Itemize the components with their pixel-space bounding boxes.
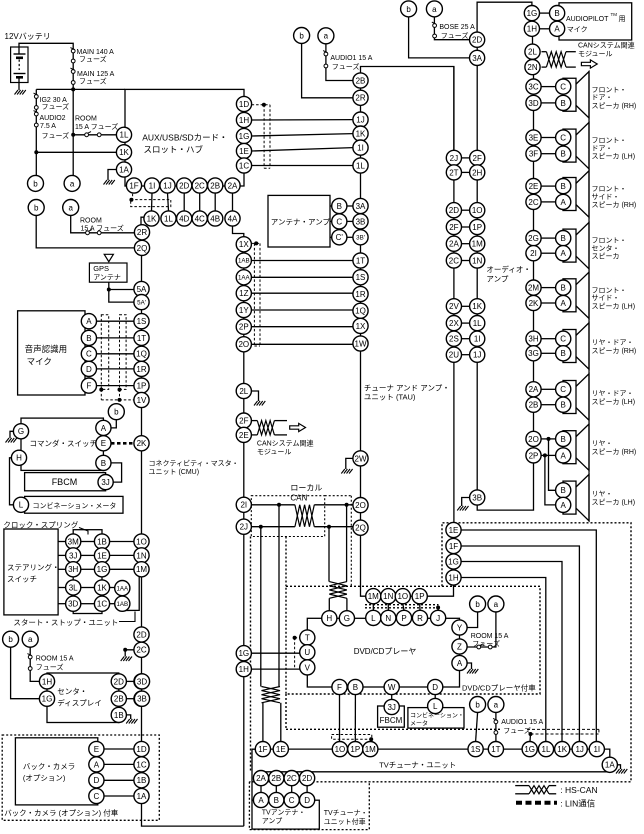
svg-text:センタ・: センタ・ xyxy=(57,687,87,696)
svg-text:C': C' xyxy=(336,233,344,242)
svg-text:1L: 1L xyxy=(120,131,129,140)
svg-text:ユニット (TAU): ユニット (TAU) xyxy=(364,393,416,402)
svg-text:a: a xyxy=(28,635,33,644)
svg-text:B: B xyxy=(86,334,91,343)
svg-text:3L: 3L xyxy=(69,583,78,592)
svg-text:1M: 1M xyxy=(136,565,147,574)
svg-text:1L: 1L xyxy=(164,214,173,223)
svg-text:コネクティビティ・マスタ・: コネクティビティ・マスタ・ xyxy=(149,459,239,468)
svg-text:アンテナ: アンテナ xyxy=(93,274,121,282)
svg-text:サイド・: サイド・ xyxy=(592,193,620,201)
svg-text:4C: 4C xyxy=(195,214,205,223)
svg-text:1T: 1T xyxy=(356,256,365,265)
svg-text:2R: 2R xyxy=(355,94,365,103)
svg-text:1R: 1R xyxy=(136,365,146,374)
svg-text:1Z: 1Z xyxy=(239,289,248,298)
svg-text:C: C xyxy=(560,335,566,344)
svg-text:1V: 1V xyxy=(137,396,147,405)
svg-text:b: b xyxy=(299,31,304,40)
svg-text:1H: 1H xyxy=(527,25,537,34)
svg-text:1M: 1M xyxy=(365,745,376,754)
svg-text:マイク: マイク xyxy=(567,26,588,34)
svg-text:2C: 2C xyxy=(136,646,146,655)
svg-text:MAIN 125 A: MAIN 125 A xyxy=(77,71,115,78)
svg-text:3B: 3B xyxy=(356,217,366,226)
svg-text:1O: 1O xyxy=(472,206,483,215)
svg-text:1M: 1M xyxy=(368,592,379,601)
svg-text:B: B xyxy=(561,349,566,358)
svg-text:1E: 1E xyxy=(97,551,107,560)
svg-text:2X: 2X xyxy=(449,319,459,328)
svg-text:マイク: マイク xyxy=(27,357,52,367)
svg-text:D: D xyxy=(86,365,92,374)
svg-text:2B: 2B xyxy=(356,76,366,85)
svg-text:1K: 1K xyxy=(356,129,366,138)
svg-text:スピーカ (RH): スピーカ (RH) xyxy=(592,201,637,209)
svg-text:G: G xyxy=(344,614,350,623)
svg-text:C: C xyxy=(560,133,566,142)
svg-text:B: B xyxy=(561,435,566,444)
svg-text:C: C xyxy=(94,792,100,801)
svg-text:1D: 1D xyxy=(239,100,249,109)
svg-text:2Q: 2Q xyxy=(137,244,148,253)
svg-text:チューナ アンド アンプ・: チューナ アンド アンプ・ xyxy=(364,384,450,393)
svg-text:1B: 1B xyxy=(97,537,107,546)
svg-text:L: L xyxy=(371,614,376,623)
svg-text:H: H xyxy=(326,614,332,623)
svg-text:4A: 4A xyxy=(228,214,238,223)
svg-text:5A: 5A xyxy=(137,285,147,294)
svg-text:2H: 2H xyxy=(472,168,482,177)
svg-text:1G: 1G xyxy=(524,745,535,754)
svg-text:FBCM: FBCM xyxy=(52,477,77,487)
svg-text:スピーカ (LH): スピーカ (LH) xyxy=(592,398,636,406)
svg-text:1A: 1A xyxy=(119,165,129,174)
svg-text:1O: 1O xyxy=(397,592,408,601)
svg-text:フューズ: フューズ xyxy=(42,131,70,140)
svg-text:バック・カメラ: バック・カメラ xyxy=(23,762,75,771)
svg-text:3B: 3B xyxy=(137,695,147,704)
svg-text:1Q: 1Q xyxy=(136,350,147,359)
svg-text:モジュール: モジュール xyxy=(257,448,292,456)
svg-text:1C: 1C xyxy=(239,161,249,170)
svg-text:B: B xyxy=(561,401,566,410)
svg-text:フロント・: フロント・ xyxy=(592,286,627,294)
svg-text:2D: 2D xyxy=(449,206,459,215)
svg-text:音声認識用: 音声認識用 xyxy=(25,344,68,354)
svg-text:(オプション): (オプション) xyxy=(23,774,66,783)
svg-text:B: B xyxy=(101,459,106,468)
svg-text:フューズ: フューズ xyxy=(79,77,107,86)
svg-text:センタ・: センタ・ xyxy=(592,243,620,252)
svg-text:2D: 2D xyxy=(179,181,189,190)
svg-text:1N: 1N xyxy=(136,551,146,560)
svg-text:2B: 2B xyxy=(210,181,220,190)
svg-text:バック・カメラ (オプション) 付車: バック・カメラ (オプション) 付車 xyxy=(4,808,119,818)
svg-text:1E: 1E xyxy=(276,745,286,754)
svg-text:1Y: 1Y xyxy=(239,306,249,315)
svg-text:G: G xyxy=(18,427,24,436)
svg-text:CANシステム関連: CANシステム関連 xyxy=(257,439,314,448)
svg-text:2A: 2A xyxy=(256,774,266,783)
svg-text:A: A xyxy=(561,299,567,308)
svg-text:1H: 1H xyxy=(239,116,249,125)
svg-text:a: a xyxy=(70,179,75,188)
svg-text:フューズ: フューズ xyxy=(472,639,500,648)
svg-text:2B: 2B xyxy=(271,774,281,783)
svg-text:12Vバッテリ: 12Vバッテリ xyxy=(5,32,51,41)
svg-text:フューズ: フューズ xyxy=(42,102,70,111)
svg-text:a: a xyxy=(432,5,437,14)
svg-text:B: B xyxy=(561,182,566,191)
svg-text:3D: 3D xyxy=(68,600,78,609)
svg-text:フロント・: フロント・ xyxy=(592,86,627,94)
svg-text:1A: 1A xyxy=(605,761,615,770)
svg-text:1K: 1K xyxy=(557,745,567,754)
svg-text:スピーカ (RH): スピーカ (RH) xyxy=(592,448,637,456)
svg-text:1Q: 1Q xyxy=(355,307,366,316)
svg-text:フューズ: フューズ xyxy=(36,663,64,672)
svg-text:スピーカ (LH): スピーカ (LH) xyxy=(592,499,636,507)
svg-text:a: a xyxy=(494,600,499,609)
svg-text:2A: 2A xyxy=(529,385,539,394)
svg-text:フューズ: フューズ xyxy=(332,62,360,71)
svg-text:3B: 3B xyxy=(472,493,482,502)
svg-text:2G: 2G xyxy=(528,234,539,243)
svg-text:1P: 1P xyxy=(472,223,482,232)
svg-text:A: A xyxy=(554,25,560,34)
svg-text:ステアリング・: ステアリング・ xyxy=(7,562,60,572)
svg-text:1AA: 1AA xyxy=(238,275,251,282)
svg-text:スピーカ (RH): スピーカ (RH) xyxy=(592,347,637,355)
svg-text:1P: 1P xyxy=(415,592,425,601)
svg-text:2K: 2K xyxy=(137,439,147,448)
svg-text:1AB: 1AB xyxy=(116,601,128,608)
svg-text:C: C xyxy=(560,385,566,394)
svg-text:3A: 3A xyxy=(472,54,482,63)
svg-text:1R: 1R xyxy=(355,290,365,299)
svg-text:2D: 2D xyxy=(472,36,482,45)
svg-text:ローカル: ローカル xyxy=(290,484,322,493)
svg-text:FBCM: FBCM xyxy=(380,716,403,725)
svg-text:1J: 1J xyxy=(356,115,364,124)
svg-text:a: a xyxy=(68,203,73,212)
svg-text:V: V xyxy=(305,663,311,672)
svg-text:1K: 1K xyxy=(119,148,129,157)
svg-text:2D: 2D xyxy=(114,677,124,686)
svg-text:2W: 2W xyxy=(355,454,367,463)
svg-text:F: F xyxy=(337,683,342,692)
svg-text:2T: 2T xyxy=(449,168,458,177)
svg-text:オーディオ・: オーディオ・ xyxy=(486,264,530,274)
svg-text:クロック・スプリング: クロック・スプリング xyxy=(3,520,78,530)
svg-text:2P: 2P xyxy=(239,323,249,332)
svg-text:アンプ: アンプ xyxy=(262,817,283,825)
svg-text:2D: 2D xyxy=(302,774,312,783)
svg-text:B: B xyxy=(561,283,566,292)
svg-text:b: b xyxy=(475,600,480,609)
svg-text:3J: 3J xyxy=(101,478,109,487)
svg-text:1H: 1H xyxy=(239,665,249,674)
svg-text:4D: 4D xyxy=(179,214,189,223)
svg-text:2F: 2F xyxy=(449,223,458,232)
svg-text:1C: 1C xyxy=(136,760,146,769)
svg-text:CANシステム関連: CANシステム関連 xyxy=(578,41,635,50)
svg-text:ユニット付車: ユニット付車 xyxy=(324,817,366,826)
svg-text:2K: 2K xyxy=(529,299,539,308)
svg-text:T: T xyxy=(305,633,310,642)
svg-text:3D: 3D xyxy=(137,677,147,686)
svg-text:5A': 5A' xyxy=(137,299,146,306)
svg-text:4B: 4B xyxy=(210,214,220,223)
svg-text:フューズ: フューズ xyxy=(503,726,531,735)
svg-text:2J: 2J xyxy=(240,523,248,532)
svg-text:1S: 1S xyxy=(137,317,147,326)
svg-text:N: N xyxy=(385,614,391,623)
svg-text:U: U xyxy=(304,648,310,657)
svg-text:TVチューナ・ユニット: TVチューナ・ユニット xyxy=(379,761,456,770)
svg-text:フロント・: フロント・ xyxy=(592,137,627,145)
svg-text:A: A xyxy=(101,424,107,433)
svg-text:1T: 1T xyxy=(137,334,146,343)
svg-text:2C: 2C xyxy=(528,198,538,207)
svg-text:b: b xyxy=(475,700,480,709)
svg-text:2S: 2S xyxy=(449,335,459,344)
svg-text:2C: 2C xyxy=(287,774,297,783)
svg-text:A: A xyxy=(561,249,567,258)
svg-text:b: b xyxy=(406,5,411,14)
svg-text:2B: 2B xyxy=(114,695,124,704)
svg-text:1N: 1N xyxy=(383,592,393,601)
svg-text:1E: 1E xyxy=(449,526,459,535)
svg-text:A: A xyxy=(258,796,264,805)
svg-text:1T: 1T xyxy=(491,745,500,754)
svg-text:1H: 1H xyxy=(42,677,52,686)
svg-text:D: D xyxy=(304,796,310,805)
svg-text:TM: TM xyxy=(611,12,618,17)
svg-text:3C: 3C xyxy=(528,82,538,91)
svg-text:b: b xyxy=(33,179,38,188)
svg-text:B: B xyxy=(274,796,279,805)
svg-text:3E: 3E xyxy=(529,133,539,142)
svg-text:2F: 2F xyxy=(239,416,248,425)
svg-text:1H: 1H xyxy=(448,573,458,582)
svg-text:L: L xyxy=(19,501,24,510)
svg-text:: LIN通信: : LIN通信 xyxy=(560,799,595,809)
svg-text:C: C xyxy=(336,217,342,226)
svg-text:コマンダ・スイッチ: コマンダ・スイッチ xyxy=(30,438,98,448)
svg-text:15 A フューズ: 15 A フューズ xyxy=(81,224,124,233)
svg-text:1AA: 1AA xyxy=(116,585,129,592)
svg-text:b: b xyxy=(34,203,39,212)
svg-text:2D: 2D xyxy=(136,630,146,639)
svg-text:TVチューナ・: TVチューナ・ xyxy=(324,809,368,817)
svg-text:E: E xyxy=(101,439,106,448)
svg-text:a: a xyxy=(494,700,499,709)
svg-text:1F: 1F xyxy=(449,542,458,551)
svg-text:2O: 2O xyxy=(238,340,249,349)
svg-text:3D: 3D xyxy=(528,99,538,108)
svg-text:2C: 2C xyxy=(449,256,459,265)
svg-text:3A: 3A xyxy=(356,202,366,211)
svg-text:ドア・: ドア・ xyxy=(592,144,613,152)
svg-text:AUDIO1 15 A: AUDIO1 15 A xyxy=(501,719,543,726)
svg-text:3B': 3B' xyxy=(356,235,365,242)
svg-text:1E: 1E xyxy=(239,147,249,156)
svg-text:1D: 1D xyxy=(136,745,146,754)
svg-text:2L: 2L xyxy=(528,48,537,57)
svg-text:ROOM 15 A: ROOM 15 A xyxy=(471,633,509,640)
svg-text:DVD/CDプレーヤ: DVD/CDプレーヤ xyxy=(354,647,417,656)
svg-text:1F: 1F xyxy=(129,181,138,190)
svg-text:リヤ・: リヤ・ xyxy=(592,491,613,498)
svg-text:ROOM: ROOM xyxy=(75,116,97,123)
svg-text:F: F xyxy=(86,381,91,390)
svg-text:3G: 3G xyxy=(528,349,539,358)
svg-text:W: W xyxy=(388,683,396,692)
svg-text:スピーカ (LH): スピーカ (LH) xyxy=(592,302,636,310)
svg-text:B: B xyxy=(561,486,566,495)
svg-text:1F: 1F xyxy=(258,745,267,754)
svg-text:B: B xyxy=(561,234,566,243)
svg-text:1W: 1W xyxy=(355,339,367,348)
svg-text:2R: 2R xyxy=(137,228,147,237)
svg-text:2O: 2O xyxy=(528,435,539,444)
svg-text:b: b xyxy=(114,408,119,417)
svg-text:R: R xyxy=(417,614,423,623)
svg-text:C: C xyxy=(289,796,295,805)
svg-text:1J: 1J xyxy=(163,181,171,190)
svg-text:2J: 2J xyxy=(450,154,458,163)
svg-text:: HS-CAN: : HS-CAN xyxy=(560,785,597,795)
svg-text:2N: 2N xyxy=(527,63,537,72)
svg-text:1S: 1S xyxy=(356,273,366,282)
svg-text:b: b xyxy=(8,635,13,644)
svg-text:1L: 1L xyxy=(356,161,365,170)
svg-text:CAN: CAN xyxy=(290,494,307,503)
svg-text:1G: 1G xyxy=(42,695,53,704)
svg-text:1P: 1P xyxy=(350,745,360,754)
svg-text:2B: 2B xyxy=(529,401,539,410)
svg-text:1O: 1O xyxy=(136,537,147,546)
svg-text:3H: 3H xyxy=(528,335,538,344)
svg-text:2P: 2P xyxy=(529,451,539,460)
svg-text:A: A xyxy=(457,659,463,668)
svg-text:1B: 1B xyxy=(137,776,147,785)
svg-text:1I: 1I xyxy=(149,181,156,190)
svg-text:コンビネーション・メータ: コンビネーション・メータ xyxy=(33,501,117,510)
svg-text:フロント・: フロント・ xyxy=(592,185,627,193)
svg-text:サイド・: サイド・ xyxy=(592,294,620,302)
svg-text:1P: 1P xyxy=(137,381,147,390)
svg-text:スロット・ハブ: スロット・ハブ xyxy=(144,145,204,155)
svg-text:1I: 1I xyxy=(593,745,600,754)
svg-text:1K: 1K xyxy=(97,583,107,592)
svg-text:1G: 1G xyxy=(238,649,249,658)
svg-text:J: J xyxy=(436,614,440,623)
svg-text:1M: 1M xyxy=(472,240,483,249)
svg-text:2I: 2I xyxy=(530,249,537,258)
svg-text:2U: 2U xyxy=(449,351,459,360)
svg-text:15 A フューズ: 15 A フューズ xyxy=(75,122,118,131)
svg-text:1G: 1G xyxy=(448,557,459,566)
svg-text:1J: 1J xyxy=(575,745,583,754)
svg-text:BOSE 25 A: BOSE 25 A xyxy=(439,24,475,31)
svg-text:1J: 1J xyxy=(473,351,481,360)
svg-text:E: E xyxy=(94,745,99,754)
svg-text:ROOM: ROOM xyxy=(80,218,102,225)
svg-text:1L: 1L xyxy=(473,319,482,328)
svg-text:2E: 2E xyxy=(239,431,249,440)
svg-text:AUDIO2: AUDIO2 xyxy=(40,115,66,122)
svg-text:2A: 2A xyxy=(449,240,459,249)
svg-text:1K: 1K xyxy=(147,214,157,223)
svg-text:1G: 1G xyxy=(527,9,538,18)
svg-text:リヤ・ドア・: リヤ・ドア・ xyxy=(592,390,634,398)
svg-text:1C: 1C xyxy=(97,600,107,609)
svg-text:アンプ: アンプ xyxy=(486,275,508,284)
svg-text:D: D xyxy=(94,776,100,785)
svg-text:ディスプレイ: ディスプレイ xyxy=(57,698,101,708)
svg-text:B: B xyxy=(353,683,358,692)
svg-text:H: H xyxy=(16,454,22,463)
svg-text:アンテナ・アンプ: アンテナ・アンプ xyxy=(271,218,331,227)
svg-text:用: 用 xyxy=(619,15,626,23)
svg-text:2A: 2A xyxy=(228,181,238,190)
svg-text:A: A xyxy=(86,317,92,326)
svg-text:D: D xyxy=(432,683,438,692)
svg-text:A: A xyxy=(561,501,567,510)
svg-text:AUDIOPILOT: AUDIOPILOT xyxy=(566,16,609,23)
svg-text:2I: 2I xyxy=(240,501,247,510)
svg-text:メータ: メータ xyxy=(410,720,428,728)
svg-text:スピーカ (RH): スピーカ (RH) xyxy=(592,102,637,110)
svg-text:3J: 3J xyxy=(387,703,395,712)
svg-text:2E: 2E xyxy=(529,182,539,191)
svg-text:スピーカ: スピーカ xyxy=(592,253,620,261)
svg-text:ユニット (CMU): ユニット (CMU) xyxy=(149,469,200,476)
svg-text:Y: Y xyxy=(457,623,463,632)
svg-text:1I: 1I xyxy=(357,143,364,152)
svg-text:1X: 1X xyxy=(356,322,366,331)
svg-text:1O: 1O xyxy=(335,745,346,754)
svg-text:1G: 1G xyxy=(239,132,250,141)
svg-text:1I: 1I xyxy=(474,335,481,344)
svg-text:a: a xyxy=(324,32,329,41)
svg-text:1S: 1S xyxy=(471,745,481,754)
svg-text:2F: 2F xyxy=(473,154,482,163)
svg-text:AUDIO1 15 A: AUDIO1 15 A xyxy=(330,55,372,62)
svg-text:フロント・: フロント・ xyxy=(592,237,627,245)
svg-text:1A: 1A xyxy=(137,792,147,801)
svg-text:2O: 2O xyxy=(355,501,366,510)
svg-text:1B: 1B xyxy=(114,711,124,720)
svg-text:A: A xyxy=(94,760,100,769)
svg-text:ROOM 15 A: ROOM 15 A xyxy=(36,656,74,663)
svg-text:B: B xyxy=(337,202,342,211)
svg-text:3F: 3F xyxy=(529,150,538,159)
svg-text:フューズ: フューズ xyxy=(79,55,107,64)
svg-text:IG2 30 A: IG2 30 A xyxy=(40,97,68,104)
svg-text:3H: 3H xyxy=(68,565,78,574)
svg-text:ドア・: ドア・ xyxy=(592,94,613,102)
svg-text:スピーカ (LH): スピーカ (LH) xyxy=(592,153,636,161)
svg-text:P: P xyxy=(401,614,406,623)
svg-text:2C: 2C xyxy=(195,181,205,190)
svg-text:MAIN 140 A: MAIN 140 A xyxy=(77,49,115,56)
svg-text:C: C xyxy=(86,350,92,359)
svg-text:2V: 2V xyxy=(449,302,459,311)
